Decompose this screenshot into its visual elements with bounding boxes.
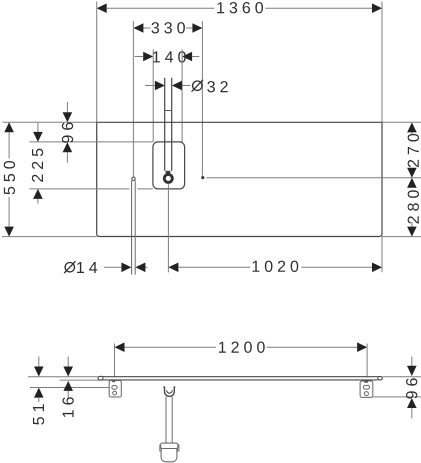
drain pipe [165, 397, 167, 443]
ext bottom edge right [382, 236, 421, 238]
ext line 330 right / drain point line [201, 21, 203, 176]
dim 1020 [178, 266, 372, 268]
dim O32 arrows [155, 81, 165, 91]
faucet hole tab [166, 171, 171, 174]
faucet centerline ext below [167, 184, 169, 272]
ext line 330 left / towel bar centerline [132, 21, 134, 177]
dim 140 arrows [143, 52, 153, 62]
dim 280 [407, 178, 417, 188]
centerline right ext [206, 177, 421, 179]
dim 1020 text [253, 261, 299, 272]
dim 270 [407, 122, 417, 132]
slab top line ext right [383, 376, 421, 378]
slab right end cap [378, 377, 382, 380]
drain fitting [163, 386, 175, 388]
slab bottom [103, 379, 378, 381]
ext 1200 left [114, 344, 116, 378]
ext line right 1360 [381, 2, 383, 123]
dim 1360 text [217, 2, 263, 13]
dim 1200 text [219, 342, 265, 353]
dim 1360 arrows [97, 3, 107, 13]
faucet hole ring [164, 174, 172, 182]
dim O14 text [64, 261, 75, 273]
slab top line ext left [28, 376, 98, 378]
dim 550 line [8, 132, 10, 226]
trap coupling [160, 445, 161, 451]
bracket bottom ext right [373, 396, 421, 398]
dim 1200 [125, 346, 358, 348]
ext bottom edge left [2, 236, 97, 238]
towel bar lines [131, 181, 133, 275]
ext line left 1360 [96, 2, 98, 123]
dim 550 text [4, 161, 15, 194]
faucet slot right line [171, 78, 173, 171]
drain point dot [201, 176, 204, 179]
slab top [103, 376, 378, 378]
dim 96 lower [411, 357, 413, 366]
faucet slot left line [164, 78, 166, 171]
dim 96 text [62, 122, 73, 142]
dim 330 line [143, 27, 192, 29]
dim 330 arrows [133, 23, 143, 33]
dim 140 text [153, 51, 186, 62]
dim 330 text [151, 22, 184, 33]
right edge ext below [381, 237, 383, 273]
dim 1360 line [107, 7, 372, 9]
dim 51 [38, 357, 40, 367]
plate bottom ext line [30, 188, 130, 190]
right bracket [360, 381, 373, 397]
plate top ext line [30, 141, 153, 143]
dim 550 arrows [4, 122, 14, 132]
ext top edge left [3, 121, 97, 123]
dim 140 tails [135, 56, 200, 58]
dim O32 text [192, 80, 203, 92]
dim 225 text [32, 149, 43, 182]
left bracket [109, 381, 121, 398]
slab left end cap [98, 376, 103, 380]
dim 16 [67, 357, 69, 367]
ext line 140 left [152, 50, 154, 143]
countertop outline [97, 122, 382, 236]
ext top edge right [382, 121, 421, 123]
dim O32 tails [145, 85, 190, 87]
slab bottom ext left [60, 379, 102, 381]
ext 1200 right [366, 344, 368, 378]
trap body [161, 449, 177, 462]
dim 96 [66, 102, 68, 112]
faucet plate rounded rect [153, 142, 185, 189]
dim O14 [104, 266, 122, 268]
dim 225 [37, 123, 39, 132]
bracket slot line left [30, 387, 109, 389]
faucet slot tick [165, 110, 172, 112]
towel bar top ring [132, 177, 135, 180]
ext line 140 right [181, 50, 183, 143]
